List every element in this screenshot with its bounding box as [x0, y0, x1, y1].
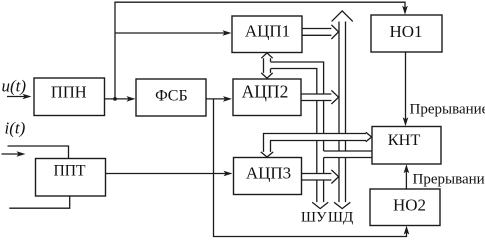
block ППТ — [36, 159, 106, 197]
wire ППТ to АЦП3 — [106, 173, 228, 175]
wire from u(t) node up over to HO1 and ADC1 (vertical riser at x=115) — [114, 2, 116, 99]
bus ШД top arrowhead (up) — [332, 11, 353, 22]
wire НО1 to КНТ — [405, 52, 407, 122]
arrowhead into АЦП2 left — [223, 96, 232, 102]
svg-text:u(t): u(t) — [2, 77, 27, 96]
arrowhead into АЦП1 left — [223, 30, 232, 36]
arrowhead into КНТ top — [403, 117, 409, 126]
bus branch ШУ to КНТ left (lower) — [318, 151, 373, 158]
svg-text:АЦП2: АЦП2 — [242, 82, 289, 102]
wire top horizontal to НО1 — [114, 2, 405, 11]
svg-text:ППН: ППН — [51, 83, 87, 102]
bus L-shaped: down into АЦП3 top and right into КНТ left — [261, 132, 372, 157]
svg-text:ФСБ: ФСБ — [155, 87, 188, 104]
arrowhead u(t) input — [23, 94, 32, 100]
svg-text:АЦП1: АЦП1 — [245, 22, 290, 41]
arrowhead up into АЦП1 bottom — [261, 53, 272, 58]
block АЦП3 — [234, 158, 302, 195]
svg-text:НО2: НО2 — [393, 196, 426, 215]
arrowhead into НО1 top — [402, 6, 408, 15]
wire branch from ФСБ output down — [213, 99, 215, 237]
arrowhead i(t) input — [17, 151, 26, 156]
bus ШУ vertical (control bus) with branch from АЦП1-АЦП2 link — [268, 62, 328, 209]
arrowhead into КНТ bottom (from НО2) — [404, 164, 410, 173]
block АЦП2 — [233, 79, 301, 116]
arrowhead down into АЦП2 top — [261, 73, 272, 78]
svg-text:НО1: НО1 — [389, 22, 422, 41]
bus АЦП3 output to ШД — [302, 170, 339, 184]
svg-text:Прерывание: Прерывание — [410, 102, 485, 118]
bus АЦП1 output to ШД — [302, 25, 339, 39]
svg-text:ППТ: ППТ — [53, 162, 86, 179]
svg-text:ШУ: ШУ — [301, 210, 327, 226]
block ФСБ — [136, 79, 206, 116]
wire bottom run to НО2 — [213, 229, 407, 237]
bus ШД bottom arrowhead (down) — [334, 202, 350, 208]
bus link АЦП1-АЦП2 (two-headed vertical) — [261, 53, 272, 78]
arrowhead into АЦП3 left — [224, 171, 233, 177]
svg-text:i(t): i(t) — [5, 119, 26, 138]
wire НО2 to КНТ — [405, 168, 407, 190]
svg-text:КНТ: КНТ — [388, 130, 421, 149]
wire ППН to ФСБ — [105, 98, 131, 100]
svg-text:Прерывание: Прерывание — [413, 172, 485, 188]
junction dot at ППН output — [113, 97, 117, 101]
block АЦП1 — [232, 16, 302, 53]
wire ФСБ to АЦП2 — [206, 98, 227, 100]
arrowhead into НО2 bottom — [404, 226, 410, 235]
wire u(t) input arrow — [7, 96, 28, 98]
bus ШУ bottom arrowhead (down) — [312, 202, 328, 208]
arrowhead right into КНТ left — [366, 132, 372, 142]
block ППН — [34, 78, 105, 116]
block НО2 — [370, 189, 440, 226]
wire i(t) input arrow — [2, 153, 22, 155]
svg-text:ШД: ШД — [328, 210, 353, 226]
block НО1 — [371, 15, 442, 52]
svg-text:АЦП3: АЦП3 — [246, 163, 291, 182]
block КНТ — [372, 127, 441, 165]
arrowhead into ФСБ left — [127, 96, 136, 102]
bus ШД vertical (data bus) — [332, 11, 353, 209]
bus АЦП2 output to ШД — [301, 90, 339, 104]
wire shunt top conductor — [8, 146, 69, 159]
arrowhead down into АЦП3 top — [261, 152, 273, 157]
wire shunt bottom conductor — [9, 196, 69, 208]
wire horizontal into АЦП1 — [115, 32, 229, 34]
